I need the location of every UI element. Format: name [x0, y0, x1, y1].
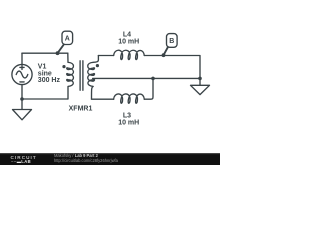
inductor L3 [114, 94, 145, 103]
wire top-right rail right part [144, 56, 200, 79]
ground right [191, 78, 210, 94]
node flag B box [167, 34, 178, 48]
wire secondary tap to middle rail [93, 77, 200, 79]
svg-text:L3: L3 [123, 112, 131, 119]
svg-text:300 Hz: 300 Hz [38, 77, 61, 84]
transformer core [80, 61, 83, 91]
svg-text:B: B [169, 38, 174, 45]
wire V1 top stub [21, 53, 23, 64]
inductor L4 [114, 50, 145, 59]
junction right ground [198, 77, 202, 81]
svg-text:A: A [65, 36, 70, 43]
ground left [13, 99, 32, 120]
node flag A box [62, 31, 73, 44]
svg-text:~~▬LAB: ~~▬LAB [11, 159, 31, 164]
footer watermark bar [0, 153, 220, 165]
transformer XFMR1 primary winding [67, 53, 74, 99]
wire top-right rail left part [98, 55, 113, 57]
junction V1 bottom [20, 97, 24, 101]
wire bottom-left rail [22, 98, 68, 100]
node B anchor dot [162, 53, 166, 57]
junction L3/middle rail [151, 77, 155, 81]
svg-text:10 mH: 10 mH [118, 38, 139, 45]
voltage source V1 [12, 64, 32, 84]
wire L3 to middle rail [144, 78, 153, 99]
wire V1 bottom stub [21, 85, 23, 99]
svg-text:XFMR1: XFMR1 [69, 106, 93, 113]
wire top-left rail [22, 52, 68, 54]
transformer XFMR1 secondary winding [88, 56, 99, 100]
wire bottom-right rail [92, 98, 114, 100]
svg-text:http://circuitlab.com/c28fy26h: http://circuitlab.com/c28fy26hnrjwfa [54, 158, 119, 163]
svg-text:L4: L4 [123, 31, 131, 38]
transformer polarity dot primary [62, 65, 65, 68]
node flag A leader [58, 45, 64, 54]
node flag B leader [164, 47, 168, 55]
svg-text:10 mH: 10 mH [118, 120, 139, 127]
node A anchor dot [56, 51, 60, 55]
transformer polarity dot secondary [96, 64, 99, 67]
